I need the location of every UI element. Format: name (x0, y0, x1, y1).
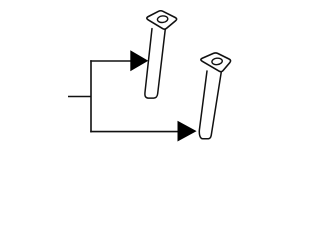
arrowhead to bolt 1 (130, 50, 148, 71)
bolt B1 head hole (157, 15, 168, 23)
wire: top branch (90, 60, 132, 62)
wire: bottom branch (90, 131, 179, 133)
bolt B2 shaft (199, 71, 221, 139)
bolt B2 head (201, 53, 231, 72)
arrowhead to bolt 2 (178, 121, 197, 142)
wire: left stub (68, 96, 91, 98)
bolt B2 head hole (212, 58, 223, 66)
bolt B1 shaft (145, 29, 165, 99)
wire: vertical bracket (90, 60, 92, 132)
bolt B1 head (147, 11, 177, 29)
